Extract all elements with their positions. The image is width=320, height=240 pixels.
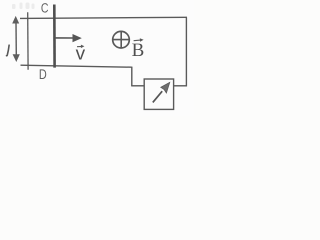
svg-text:C: C [41, 1, 49, 16]
svg-text:v: v [76, 43, 86, 64]
svg-text:D: D [39, 66, 47, 82]
svg-text:B: B [132, 40, 145, 61]
